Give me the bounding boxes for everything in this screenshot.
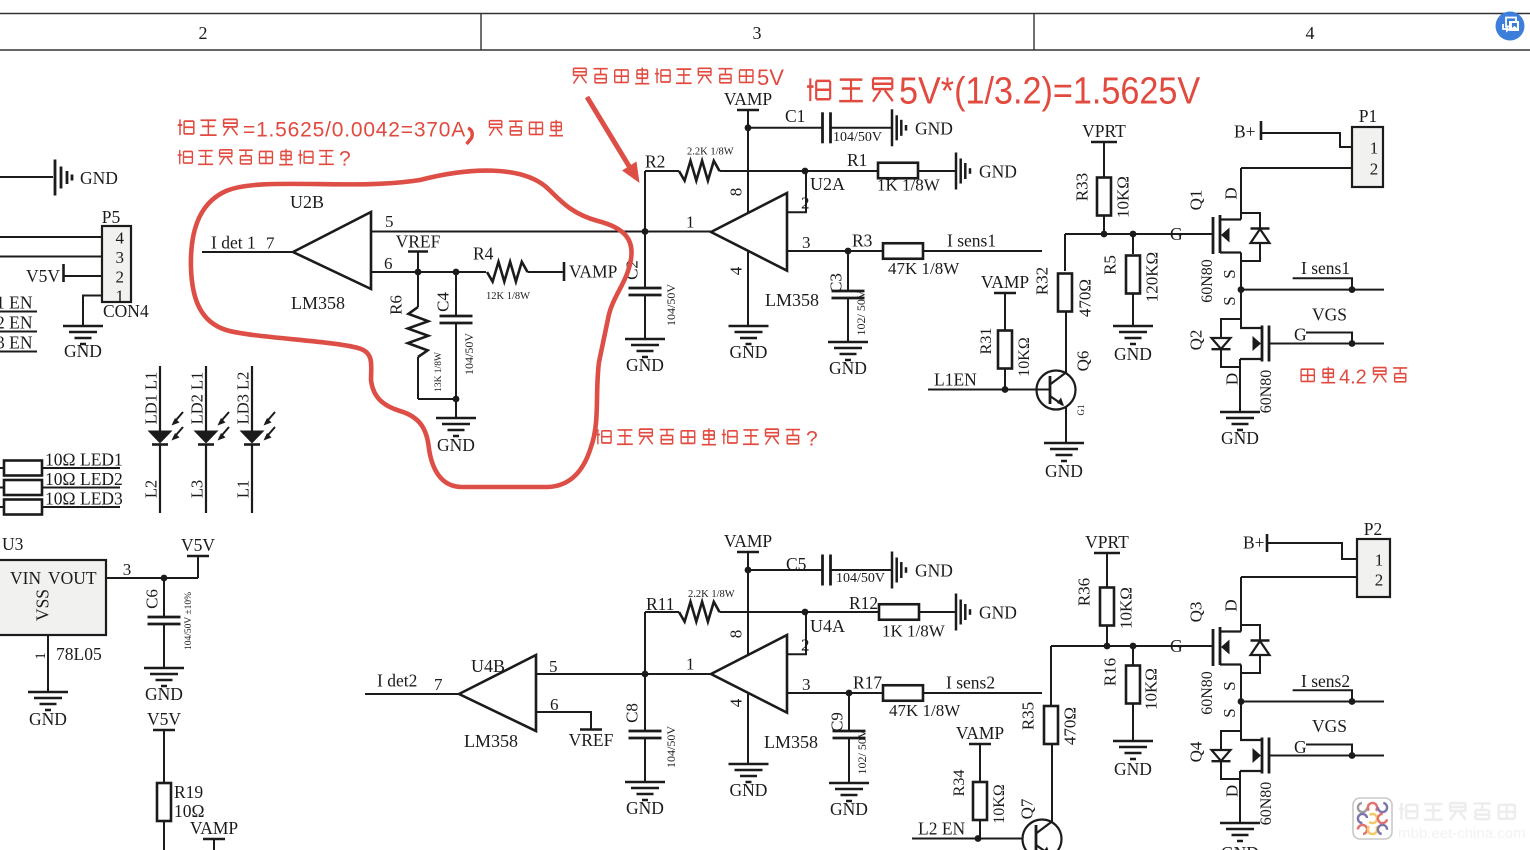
- svg-text:U3: U3: [2, 534, 24, 554]
- svg-text:D: D: [1221, 187, 1240, 199]
- svg-text:102/ 50V: 102/ 50V: [854, 290, 868, 335]
- svg-text:LM358: LM358: [764, 732, 818, 752]
- svg-text:R19: R19: [174, 782, 203, 802]
- svg-text:G: G: [1294, 737, 1307, 757]
- svg-text:2: 2: [116, 268, 125, 287]
- svg-text:CON4: CON4: [103, 301, 149, 321]
- svg-text:GND: GND: [1114, 344, 1152, 364]
- svg-text:LED3: LED3: [80, 489, 123, 509]
- svg-text:C3: C3: [826, 273, 845, 293]
- svg-text:R17: R17: [853, 673, 882, 693]
- svg-text:GND: GND: [829, 358, 867, 378]
- svg-text:C6: C6: [142, 589, 161, 609]
- svg-text:G: G: [1170, 224, 1183, 244]
- svg-text:GND: GND: [1114, 759, 1152, 779]
- svg-text:104/50V: 104/50V: [664, 726, 678, 768]
- svg-text:L2 EN: L2 EN: [918, 819, 966, 839]
- svg-text:G1: G1: [1076, 405, 1086, 416]
- svg-text:1: 1: [686, 213, 695, 232]
- svg-text:R36: R36: [1074, 578, 1093, 606]
- svg-text:VAMP: VAMP: [724, 89, 773, 109]
- svg-text:S: S: [1220, 708, 1239, 717]
- svg-text:LM358: LM358: [291, 293, 345, 313]
- svg-text:LED2: LED2: [80, 469, 123, 489]
- svg-text:VAMP: VAMP: [724, 531, 773, 551]
- svg-text:Q6: Q6: [1073, 351, 1092, 372]
- svg-text:104/50V: 104/50V: [833, 130, 882, 145]
- svg-text:104/50V: 104/50V: [664, 284, 678, 326]
- svg-text:2.2K 1/8W: 2.2K 1/8W: [688, 589, 735, 600]
- svg-text:R5: R5: [1100, 255, 1119, 275]
- svg-text:2: 2: [1375, 571, 1384, 590]
- svg-text:3 EN: 3 EN: [0, 333, 33, 353]
- svg-text:GND: GND: [626, 798, 664, 818]
- svg-text:10KΩ: 10KΩ: [1141, 668, 1160, 710]
- svg-text:8: 8: [726, 188, 745, 197]
- svg-text:78L05: 78L05: [56, 644, 102, 664]
- svg-text:2 EN: 2 EN: [0, 313, 33, 333]
- svg-text:5: 5: [385, 212, 394, 231]
- svg-text:G: G: [1294, 325, 1307, 345]
- svg-text:P5: P5: [102, 207, 121, 227]
- svg-text:P2: P2: [1364, 519, 1382, 539]
- svg-text:VAMP: VAMP: [190, 818, 239, 838]
- svg-text:VREF: VREF: [396, 232, 441, 252]
- svg-text:D: D: [1221, 599, 1240, 611]
- svg-text:1: 1: [686, 655, 695, 674]
- svg-text:10Ω: 10Ω: [45, 450, 76, 470]
- svg-text:VGS: VGS: [1312, 305, 1347, 325]
- svg-text:R6: R6: [386, 295, 405, 315]
- svg-text:1: 1: [1375, 551, 1384, 570]
- svg-text:GND: GND: [730, 342, 768, 362]
- svg-text:R31: R31: [978, 328, 995, 355]
- svg-text:GND: GND: [915, 561, 953, 581]
- svg-text:VREF: VREF: [569, 730, 614, 750]
- svg-text:GND: GND: [64, 341, 102, 361]
- svg-text:GND: GND: [730, 780, 768, 800]
- svg-text:1: 1: [1370, 139, 1379, 158]
- svg-text:12K 1/8W: 12K 1/8W: [486, 291, 530, 302]
- svg-text:VSS: VSS: [33, 589, 53, 621]
- svg-text:GND: GND: [626, 355, 664, 375]
- svg-text:GND: GND: [979, 162, 1017, 182]
- svg-text:S: S: [1220, 681, 1239, 690]
- svg-text:I sens2: I sens2: [946, 673, 995, 693]
- svg-text:3: 3: [802, 675, 811, 694]
- svg-text:V5V: V5V: [26, 266, 60, 286]
- svg-text:60N80: 60N80: [1258, 782, 1275, 826]
- svg-text:LD3 L2: LD3 L2: [233, 372, 252, 425]
- svg-text:102/ 50V: 102/ 50V: [855, 729, 869, 774]
- svg-text:Q1: Q1: [1186, 190, 1205, 211]
- svg-text:GND: GND: [29, 709, 67, 729]
- svg-text:47K 1/8W: 47K 1/8W: [889, 701, 961, 720]
- svg-text:3: 3: [116, 248, 125, 267]
- svg-text:3: 3: [123, 560, 132, 579]
- svg-text:S: S: [1220, 269, 1239, 278]
- svg-text:I sens1: I sens1: [1301, 258, 1350, 278]
- svg-text:GND: GND: [80, 168, 118, 188]
- svg-text:Q2: Q2: [1186, 330, 1205, 351]
- svg-text:L2: L2: [141, 480, 160, 498]
- svg-text:2: 2: [199, 23, 208, 43]
- svg-text:L3: L3: [187, 480, 206, 498]
- svg-text:R1: R1: [847, 150, 867, 170]
- svg-text:R16: R16: [1100, 658, 1119, 686]
- svg-text:U2A: U2A: [810, 174, 845, 194]
- svg-text:VAMP: VAMP: [956, 723, 1005, 743]
- svg-text:GND: GND: [1221, 428, 1259, 448]
- svg-text:4: 4: [116, 229, 125, 248]
- svg-text:60N80: 60N80: [1199, 259, 1216, 303]
- svg-text:470Ω: 470Ω: [1075, 279, 1094, 317]
- svg-text:5V: 5V: [757, 65, 784, 90]
- svg-text:C4: C4: [433, 292, 452, 312]
- svg-text:G: G: [1170, 636, 1183, 656]
- svg-text:104/50V: 104/50V: [836, 571, 885, 586]
- svg-text:7: 7: [266, 234, 275, 253]
- svg-text:2: 2: [801, 636, 810, 655]
- svg-text:1 EN: 1 EN: [0, 293, 33, 313]
- svg-text:470Ω: 470Ω: [1060, 707, 1079, 745]
- svg-text:104/50V: 104/50V: [462, 333, 476, 375]
- svg-text:C5: C5: [786, 554, 807, 574]
- svg-text:3: 3: [802, 233, 811, 252]
- svg-text:10KΩ: 10KΩ: [1116, 587, 1135, 629]
- svg-text:D: D: [1222, 785, 1241, 797]
- svg-text:4.2: 4.2: [1339, 367, 1367, 389]
- svg-text:R12: R12: [849, 593, 878, 613]
- svg-text:10KΩ: 10KΩ: [1016, 337, 1033, 377]
- svg-text:10Ω: 10Ω: [45, 489, 76, 509]
- svg-text:U2B: U2B: [290, 192, 324, 212]
- svg-text:VGS: VGS: [1312, 716, 1347, 736]
- svg-text:L1: L1: [233, 480, 252, 498]
- svg-text:Q3: Q3: [1186, 602, 1205, 623]
- svg-text:120KΩ: 120KΩ: [1142, 252, 1161, 302]
- svg-text:6: 6: [384, 254, 393, 273]
- svg-text:10Ω: 10Ω: [45, 469, 76, 489]
- svg-text:1K 1/8W: 1K 1/8W: [882, 622, 946, 641]
- svg-text:5V*(1/3.2)=1.5625V: 5V*(1/3.2)=1.5625V: [899, 69, 1200, 112]
- svg-text:1: 1: [33, 652, 49, 660]
- svg-text:GND: GND: [979, 603, 1017, 623]
- svg-text:10KΩ: 10KΩ: [991, 784, 1008, 824]
- svg-text:mbb.eet-china.com: mbb.eet-china.com: [1398, 825, 1526, 842]
- svg-text:VOUT: VOUT: [48, 568, 97, 588]
- svg-text:Q4: Q4: [1186, 741, 1205, 762]
- svg-text:V5V: V5V: [147, 709, 181, 729]
- svg-text:GND: GND: [1045, 461, 1083, 481]
- svg-text:2: 2: [801, 194, 810, 213]
- svg-text:U4A: U4A: [810, 616, 845, 636]
- svg-text:Q7: Q7: [1017, 798, 1036, 819]
- svg-text:R4: R4: [473, 244, 494, 264]
- svg-text:LD2 L1: LD2 L1: [187, 372, 206, 425]
- svg-text:3: 3: [753, 23, 762, 43]
- svg-text:LED1: LED1: [80, 450, 123, 470]
- svg-text:4: 4: [726, 266, 745, 275]
- svg-text:VAMP: VAMP: [569, 262, 618, 282]
- svg-text:LM358: LM358: [765, 290, 819, 310]
- svg-text:VPRT: VPRT: [1085, 532, 1129, 552]
- svg-text:LM358: LM358: [464, 731, 518, 751]
- svg-text:4: 4: [726, 698, 745, 707]
- svg-text:R34: R34: [951, 770, 968, 797]
- svg-text:7: 7: [434, 675, 443, 694]
- svg-text:S: S: [1220, 296, 1239, 305]
- svg-text:GND: GND: [915, 118, 953, 138]
- svg-text:GND: GND: [145, 684, 183, 704]
- svg-text:10KΩ: 10KΩ: [1113, 176, 1132, 218]
- svg-text:?: ?: [806, 428, 818, 451]
- svg-text:C8: C8: [622, 703, 641, 723]
- svg-text:2: 2: [1370, 160, 1379, 179]
- svg-text:VPRT: VPRT: [1082, 121, 1126, 141]
- svg-text:U4B: U4B: [471, 656, 505, 676]
- svg-text:I det2: I det2: [377, 671, 417, 691]
- svg-text:V5V: V5V: [181, 535, 215, 555]
- svg-text:R35: R35: [1018, 702, 1037, 730]
- svg-text:1K 1/8W: 1K 1/8W: [877, 176, 941, 195]
- svg-text:47K 1/8W: 47K 1/8W: [888, 259, 960, 278]
- svg-text:GND: GND: [1221, 843, 1259, 850]
- svg-text:P1: P1: [1359, 106, 1377, 126]
- svg-text:60N80: 60N80: [1258, 370, 1275, 414]
- svg-text:4: 4: [1306, 23, 1315, 43]
- svg-text:B+: B+: [1243, 533, 1265, 553]
- svg-text:?: ?: [339, 148, 351, 171]
- svg-text:B+: B+: [1234, 122, 1256, 142]
- svg-text:13K 1/8W: 13K 1/8W: [434, 352, 444, 392]
- svg-text:R33: R33: [1072, 173, 1091, 201]
- svg-text:R32: R32: [1032, 267, 1051, 295]
- svg-text:R3: R3: [852, 231, 873, 251]
- svg-text:2.2K 1/8W: 2.2K 1/8W: [687, 147, 734, 158]
- svg-text:60N80: 60N80: [1199, 671, 1216, 715]
- svg-text:I det 1: I det 1: [211, 233, 256, 253]
- svg-text:D: D: [1222, 373, 1241, 385]
- svg-text:R2: R2: [645, 152, 665, 172]
- svg-text:I sens2: I sens2: [1301, 671, 1350, 691]
- svg-text:GND: GND: [830, 799, 868, 819]
- svg-text:I sens1: I sens1: [947, 231, 996, 251]
- svg-text:8: 8: [726, 630, 745, 639]
- svg-text:104/50V ±10%: 104/50V ±10%: [184, 592, 194, 650]
- svg-text:VAMP: VAMP: [981, 272, 1030, 292]
- svg-text:C9: C9: [827, 712, 846, 732]
- svg-text:LD1 L1: LD1 L1: [141, 372, 160, 425]
- svg-text:=1.5625/0.0042=370A: =1.5625/0.0042=370A: [243, 119, 466, 142]
- svg-text:C1: C1: [785, 106, 805, 126]
- svg-text:L1EN: L1EN: [934, 370, 977, 390]
- svg-text:GND: GND: [437, 435, 475, 455]
- svg-text:VIN: VIN: [10, 568, 41, 588]
